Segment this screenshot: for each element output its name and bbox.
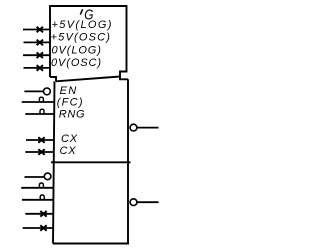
- pin FC wire: [22, 101, 54, 103]
- analog qualifier on RNG: [40, 109, 44, 114]
- nonlogic connection x on 0V(OSC): [37, 65, 43, 71]
- element2 pin2 wire: [21, 187, 53, 189]
- svg-text:0V(LOG): 0V(LOG): [52, 44, 102, 56]
- element2 pin1 wire: [25, 176, 45, 178]
- output bubble element1: [130, 124, 137, 131]
- pin +5V(OSC) wire: [24, 41, 51, 43]
- pin +5V(LOG) wire: [23, 29, 50, 31]
- negation bubble on EN: [44, 88, 51, 95]
- label 1G (general qualifying symbol): [80, 6, 93, 22]
- svg-text:(FC): (FC): [57, 96, 84, 108]
- svg-text:CX: CX: [61, 133, 78, 145]
- nonlogic connection x element2 pin4: [40, 211, 46, 217]
- svg-text:EN: EN: [60, 85, 78, 97]
- nonlogic connection x on 0V(LOG): [37, 52, 43, 58]
- pin 0V(LOG) wire: [23, 54, 50, 56]
- svg-text:+5V(LOG): +5V(LOG): [52, 19, 113, 31]
- nonlogic connection x element2 pin5: [40, 225, 46, 231]
- element2 pin5 wire: [23, 227, 54, 229]
- pin CX2 wire: [25, 151, 54, 153]
- common control block U1 outline: [50, 6, 128, 81]
- analog qualifier element2 pin3: [40, 195, 44, 200]
- element array body outline: [53, 79, 129, 243]
- analog qualifier element2 pin2: [39, 183, 43, 188]
- element2 pin3 wire: [22, 199, 54, 201]
- pin RNG wire: [25, 113, 54, 115]
- output bubble element2: [130, 199, 137, 206]
- output wire element2: [137, 201, 158, 203]
- nonlogic connection x on CX2: [38, 149, 44, 155]
- output wire element1: [137, 127, 158, 129]
- analog qualifier on FC: [39, 97, 43, 102]
- pin CX1 wire: [26, 139, 54, 141]
- nonlogic connection x on +5V(OSC): [37, 40, 43, 46]
- svg-text:RNG: RNG: [59, 108, 86, 120]
- svg-text:CX: CX: [60, 145, 77, 157]
- pin EN wire: [24, 90, 43, 92]
- svg-text:+5V(OSC): +5V(OSC): [51, 32, 112, 44]
- negation bubble element2 pin1: [44, 173, 51, 180]
- divider between element 1 and element 2: [51, 161, 131, 163]
- pin 0V(OSC) wire: [24, 67, 51, 69]
- nonlogic connection x on CX1: [38, 137, 44, 143]
- svg-text:0V(OSC): 0V(OSC): [51, 57, 102, 69]
- element2 pin4 wire: [25, 213, 53, 215]
- nonlogic connection x on +5V(LOG): [37, 27, 43, 33]
